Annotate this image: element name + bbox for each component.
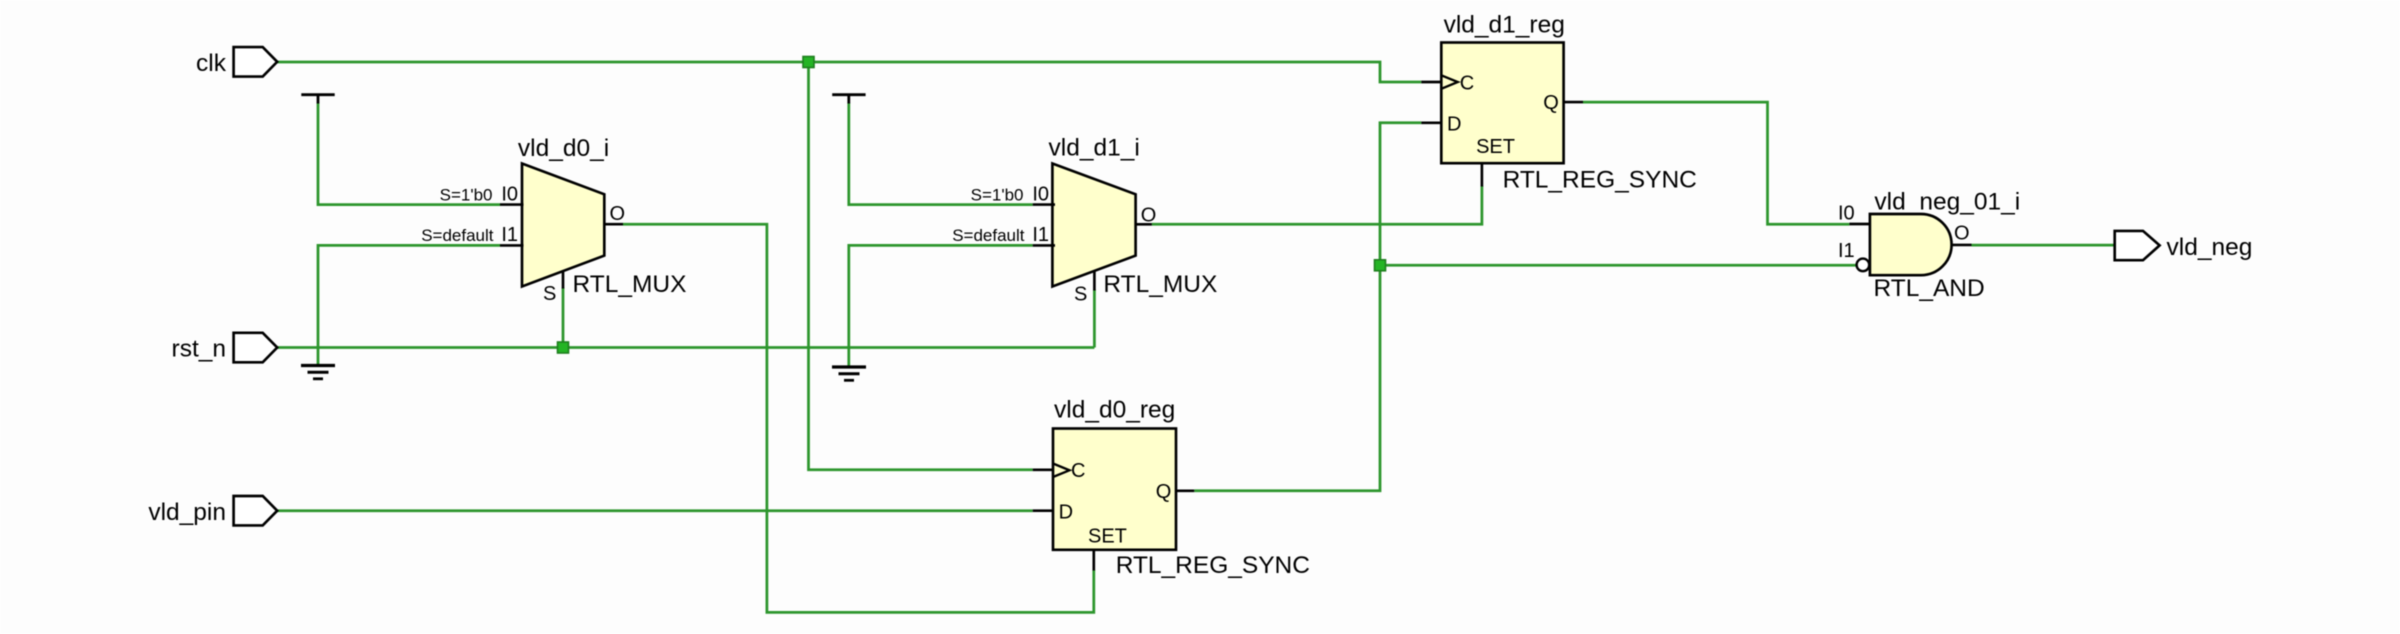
svg-text:S=1'b0: S=1'b0 [440, 185, 493, 204]
pin O of vld_neg_01_i [1952, 223, 1972, 245]
svg-text:I1: I1 [1838, 240, 1855, 262]
svg-text:RTL_MUX: RTL_MUX [1103, 271, 1217, 298]
pin S of vld_d0_i [543, 271, 563, 305]
ground GND2 [832, 367, 866, 380]
pin SET of vld_d1_reg [1476, 136, 1515, 187]
svg-text:S=default: S=default [952, 226, 1025, 245]
svg-text:clk: clk [196, 50, 227, 77]
pin I1 of vld_d1_i [952, 224, 1055, 246]
input port vld_pin [148, 496, 277, 526]
pin C of vld_d0_reg (clock wedge) [1033, 460, 1086, 482]
wire net vld_d0_reg Q to vld_d1_reg D and AND I1 [1194, 123, 1856, 491]
supply T1 (constant) [301, 95, 334, 104]
svg-text:rst_n: rst_n [172, 336, 226, 363]
junction on rst_n net at (562.3,347.5) [558, 342, 569, 353]
wire net vld_d1_i O to vld_d1_reg SET [1152, 186, 1482, 224]
mux vld_d0_i body [518, 135, 687, 298]
svg-text:RTL_AND: RTL_AND [1874, 275, 1985, 302]
pin I0 of vld_neg_01_i [1838, 203, 1870, 225]
pin O of vld_d1_i [1135, 204, 1156, 226]
svg-text:Q: Q [1543, 92, 1559, 114]
svg-text:Q: Q [1156, 481, 1172, 503]
svg-text:O: O [1954, 223, 1970, 245]
pin D of vld_d0_reg [1033, 501, 1073, 523]
output port vld_neg [2115, 231, 2253, 261]
svg-text:vld_neg_01_i: vld_neg_01_i [1874, 189, 2020, 216]
svg-text:D: D [1059, 501, 1073, 523]
svg-text:vld_pin: vld_pin [148, 499, 226, 526]
pin I0 of vld_d0_i [440, 183, 524, 205]
wire net vld_d1_reg Q to AND I0 [1583, 102, 1849, 224]
ground GND1 [301, 366, 335, 379]
svg-text:C: C [1460, 72, 1474, 94]
svg-text:SET: SET [1476, 136, 1515, 158]
pin C of vld_d1_reg (clock wedge) [1421, 72, 1474, 94]
svg-text:SET: SET [1088, 526, 1127, 548]
svg-text:vld_d1_reg: vld_d1_reg [1444, 12, 1565, 39]
svg-text:C: C [1071, 460, 1085, 482]
wire constant net from supply T2 to vld_d1_i I0 [849, 103, 1033, 205]
pin D of vld_d1_reg [1421, 113, 1461, 135]
svg-text:I0: I0 [1032, 183, 1049, 205]
svg-text:vld_d0_reg: vld_d0_reg [1054, 397, 1175, 424]
pin S of vld_d1_i [1074, 271, 1094, 306]
and-gate vld_neg_01_i body [1870, 189, 2020, 302]
mux vld_d1_i body [1049, 134, 1218, 298]
pin O of vld_d0_i [603, 203, 625, 225]
register vld_d0_reg body [1053, 397, 1310, 579]
pin Q of vld_d0_reg [1156, 481, 1195, 503]
wire ground net from GND1 to vld_d0_i I1 [318, 245, 500, 364]
input port clk [196, 47, 277, 77]
svg-text:RTL_MUX: RTL_MUX [573, 271, 687, 298]
pin I1 of vld_neg_01_i (inverted, bubble) [1838, 240, 1869, 271]
svg-text:S=default: S=default [421, 226, 494, 245]
wire net vld_d0_i O to vld_d0_reg SET [623, 224, 1094, 612]
svg-text:vld_neg: vld_neg [2167, 234, 2253, 261]
svg-text:S: S [543, 283, 556, 305]
junction on clk net at (808.5,62) [803, 57, 814, 68]
svg-text:vld_d1_i: vld_d1_i [1049, 134, 1140, 161]
pin SET of vld_d0_reg [1088, 526, 1127, 571]
svg-text:S: S [1074, 283, 1087, 305]
register vld_d1_reg body [1441, 12, 1697, 194]
svg-text:RTL_REG_SYNC: RTL_REG_SYNC [1503, 166, 1697, 193]
wire net vld_pin to vld_d0_reg D [277, 509, 1032, 512]
svg-text:RTL_REG_SYNC: RTL_REG_SYNC [1116, 552, 1310, 579]
wire rst_n net: port to mux selects [277, 288, 1094, 348]
wire clk net: port to junction to vld_d1_reg C [277, 62, 1421, 470]
wire net vld_neg_01_i O to vld_neg port [1972, 244, 2115, 247]
supply T2 (constant) [832, 95, 865, 104]
svg-text:vld_d0_i: vld_d0_i [518, 135, 609, 162]
input port rst_n [172, 333, 278, 363]
pin Q of vld_d1_reg [1543, 92, 1583, 114]
svg-text:I1: I1 [1032, 224, 1049, 246]
wire constant net from supply T1 to vld_d0_i I0 [318, 103, 500, 205]
svg-text:I0: I0 [501, 183, 518, 205]
svg-text:D: D [1447, 113, 1461, 135]
pin I0 of vld_d1_i [971, 183, 1055, 205]
svg-text:I0: I0 [1838, 203, 1855, 225]
svg-text:O: O [1141, 204, 1157, 226]
svg-text:O: O [610, 203, 626, 225]
pin I1 of vld_d0_i [421, 224, 523, 246]
svg-text:I1: I1 [501, 224, 518, 246]
junction on vld_d0 net at (1380,265.3) [1375, 260, 1386, 271]
wire ground net from GND2 to vld_d1_i I1 [849, 245, 1033, 366]
svg-text:S=1'b0: S=1'b0 [971, 185, 1024, 204]
